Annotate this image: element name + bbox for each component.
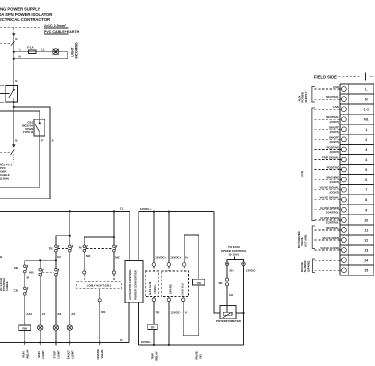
terminal 5 xyxy=(342,167,347,172)
wire: field wire 2 xyxy=(315,138,341,140)
wire: field wire 12 xyxy=(315,239,341,241)
relay coil RN xyxy=(19,325,31,331)
svg-text:N: N xyxy=(15,79,17,83)
wire: branch bus xyxy=(25,259,56,261)
svg-text:INCOMING: INCOMING xyxy=(74,42,78,59)
actuator power converter box xyxy=(125,261,143,303)
labels 12VDC+ 12VDC+ V+ xyxy=(155,256,189,260)
svg-text:12VDC-: 12VDC- xyxy=(141,340,152,344)
svg-text:M1: M1 xyxy=(101,310,105,314)
svg-text:(CONT): (CONT) xyxy=(330,140,340,144)
fuse F-1A xyxy=(28,50,36,53)
svg-text:14: 14 xyxy=(364,259,368,263)
svg-text:1: 1 xyxy=(365,128,367,132)
node: junction lamp neutral xyxy=(13,58,15,60)
wire: main live vertical xyxy=(13,36,15,86)
svg-text:2: 2 xyxy=(365,138,367,142)
wire: 12VDC+ bus xyxy=(139,211,214,213)
wire to valve connector xyxy=(83,252,85,271)
wire: 12VDC- bus xyxy=(139,344,244,346)
terminal strip table xyxy=(340,84,374,275)
wire: field wire 7 xyxy=(315,189,341,191)
bracket: house alarms rows xyxy=(313,259,316,273)
svg-text:LL: LL xyxy=(41,47,45,51)
svg-text:E: E xyxy=(52,139,54,143)
svg-text:(SPARE): (SPARE) xyxy=(306,261,310,272)
svg-text:POSITIVE: POSITIVE xyxy=(327,166,340,170)
contact SB stop button xyxy=(24,265,27,268)
wire: field wire 8 xyxy=(315,199,341,201)
wire stop lamp xyxy=(55,276,57,325)
terminal N xyxy=(342,97,347,102)
lamp fault xyxy=(67,325,72,330)
wire: tee to TB contact xyxy=(56,236,70,245)
wire: lamp return xyxy=(14,52,68,59)
wire: dash-dot into isolator xyxy=(0,85,6,87)
wire: field wire L xyxy=(315,88,341,90)
wire: CL bus xyxy=(0,211,130,260)
svg-text:V+: V+ xyxy=(185,256,189,260)
svg-text:POTENTIOMETER: POTENTIOMETER xyxy=(216,319,242,323)
svg-text:15: 15 xyxy=(364,269,368,273)
wire: field wire 15 xyxy=(315,269,341,271)
svg-text:(0-10V) SPEED: (0-10V) SPEED xyxy=(320,216,339,220)
wire: mech link dashed xyxy=(42,271,54,273)
wire xyxy=(24,295,26,325)
lamp: incoming light xyxy=(53,49,59,55)
wire: field wire 5 xyxy=(315,169,341,171)
terminal L-1 xyxy=(342,107,347,112)
svg-text:SPARE: SPARE xyxy=(169,284,173,294)
terminal 9 xyxy=(342,207,347,212)
svg-text:MC: MC xyxy=(115,256,120,260)
terminal 12VDC- xyxy=(242,262,246,266)
svg-text:CL: CL xyxy=(120,207,124,211)
terminal L xyxy=(342,87,347,92)
wire: incoming dashed feeder xyxy=(0,27,40,29)
svg-text:GAS ALM: GAS ALM xyxy=(148,281,152,295)
svg-text:8: 8 xyxy=(365,198,367,202)
svg-text:N: N xyxy=(365,98,368,102)
svg-text:P: P xyxy=(41,139,43,143)
contact CB xyxy=(24,287,27,290)
svg-text:VALVE SIGNAL: VALVE SIGNAL xyxy=(320,186,340,190)
svg-text:12VDC+: 12VDC+ xyxy=(155,256,166,260)
svg-text:FIELD SIDE: FIELD SIDE xyxy=(314,74,337,79)
rotated group labels xyxy=(297,91,310,272)
svg-text:LIGHT: LIGHT xyxy=(57,350,61,359)
svg-text:SH: SH xyxy=(229,268,233,272)
svg-text:(0-10V): (0-10V) xyxy=(229,252,239,256)
node: junction earth tee xyxy=(13,106,15,108)
svg-text:LIVE: LIVE xyxy=(333,85,339,89)
terminal 15 xyxy=(342,268,347,273)
node: junction xyxy=(69,210,71,212)
wire: M contact feed xyxy=(113,211,115,244)
svg-text:RELAY: RELAY xyxy=(26,349,30,358)
note: bottom rotated labels xyxy=(22,349,104,360)
svg-text:AO: AO xyxy=(229,293,234,297)
svg-text:POWER CONVERTER: POWER CONVERTER xyxy=(134,269,138,300)
svg-text:LIGHT: LIGHT xyxy=(41,350,45,359)
wire: dashed neutral stub xyxy=(0,151,12,153)
wire: valve drop xyxy=(99,289,101,299)
svg-text:VALVE CLOSE: VALVE CLOSE xyxy=(320,246,339,250)
svg-text:N: N xyxy=(15,37,17,41)
wire: box out to N bus xyxy=(128,302,130,343)
svg-text:RN: RN xyxy=(23,326,27,330)
svg-text:ECTRICAL CONTRACTOR: ECTRICAL CONTRACTOR xyxy=(0,17,51,22)
terminal N1 xyxy=(342,117,347,122)
bracket: C2 group rows xyxy=(312,108,315,221)
svg-text:5: 5 xyxy=(365,168,367,172)
terminal 6 xyxy=(342,177,347,182)
svg-text:12VDC+: 12VDC+ xyxy=(170,256,181,260)
svg-text:NEUTRAL: NEUTRAL xyxy=(326,115,339,119)
svg-text:A3: A3 xyxy=(57,255,61,259)
svg-text:(0-10V) SPEED: (0-10V) SPEED xyxy=(320,206,339,210)
lamp stop xyxy=(53,325,58,330)
wire xyxy=(24,331,26,343)
wire: field wire 13 xyxy=(315,249,341,251)
svg-text:12VDC-: 12VDC- xyxy=(246,268,256,272)
svg-text:LIGHT: LIGHT xyxy=(71,350,75,359)
wire: earth loop xyxy=(0,107,50,199)
wire: field wire 10 xyxy=(315,219,341,221)
svg-text:CONTROL: CONTROL xyxy=(326,221,340,225)
note: outgoing cable spec xyxy=(0,163,12,181)
wire: field wire 1 xyxy=(315,128,341,130)
svg-text:4: 4 xyxy=(365,158,367,162)
note: incoming power supply heading xyxy=(0,7,53,23)
svg-text:MACHINE: MACHINE xyxy=(326,176,339,180)
svg-text:CONTROL: CONTROL xyxy=(326,210,340,214)
svg-text:(CONT): (CONT) xyxy=(330,120,340,124)
wire: field wire 11 xyxy=(315,229,341,231)
valve note dashed box xyxy=(77,282,122,289)
wire: field wire L-1 xyxy=(315,108,341,110)
node: bus junction dots and stubs xyxy=(24,342,101,346)
wire fault lamp xyxy=(69,252,71,325)
terminal 2 xyxy=(342,137,347,142)
svg-text:A3A: A3A xyxy=(26,312,33,316)
svg-text:12VDC-: 12VDC- xyxy=(171,310,181,314)
wire: dotted continuation xyxy=(13,155,15,163)
node: junction at lamp live xyxy=(13,51,15,53)
terminal 10 xyxy=(342,218,347,223)
wire: terminal drops xyxy=(153,212,155,263)
svg-text:POSITIVE: POSITIVE xyxy=(327,145,340,149)
svg-text:ACTUATOR CONTROL: ACTUATOR CONTROL xyxy=(128,269,132,300)
terminals top row xyxy=(152,263,156,267)
note: trip relay rotated xyxy=(151,351,203,361)
svg-text:VALVE: VALVE xyxy=(100,349,104,358)
svg-text:N: N xyxy=(120,338,122,342)
wire: pot right to 12VDC- xyxy=(236,312,244,314)
svg-text:GAS VLV: GAS VLV xyxy=(181,283,185,296)
svg-text:NEUTRAL: NEUTRAL xyxy=(326,95,339,99)
wire: dashed incoming neutral xyxy=(0,42,11,44)
wire: contactor column xyxy=(69,211,71,244)
wire: mechanical link dashed xyxy=(58,248,68,250)
node: junction xyxy=(113,210,115,212)
terminal 3 xyxy=(342,147,347,152)
svg-text:A7: A7 xyxy=(42,312,46,316)
svg-text:CABLE: CABLE xyxy=(5,281,9,291)
wire: bus corner to potentiometer xyxy=(214,212,220,313)
svg-text:6: 6 xyxy=(365,178,367,182)
breaker CB1 MCB box xyxy=(34,119,45,136)
terminal 8 xyxy=(342,197,347,202)
svg-text:(CONT): (CONT) xyxy=(330,150,340,154)
svg-text:11: 11 xyxy=(364,228,368,232)
svg-text:7: 7 xyxy=(365,188,367,192)
svg-text:TYPE B: TYPE B xyxy=(23,130,33,134)
relay coil TR xyxy=(148,324,158,329)
bracket: aux power supply rows xyxy=(312,87,315,103)
wire: live below isolator xyxy=(13,86,15,90)
svg-text:ON/OFF: ON/OFF xyxy=(329,125,340,129)
terminal 4 xyxy=(342,157,347,162)
svg-text:(C2): (C2) xyxy=(300,171,304,177)
wire: mcb feed xyxy=(0,111,40,120)
svg-text:3: 3 xyxy=(365,148,367,152)
svg-text:ON/OFF: ON/OFF xyxy=(329,135,340,139)
wire: mcb load out xyxy=(0,136,40,187)
svg-text:4B: 4B xyxy=(0,255,2,259)
wire: field wire 14 xyxy=(315,259,341,261)
svg-text:13: 13 xyxy=(364,249,368,253)
gas alarm dashed box xyxy=(145,271,159,297)
node: arrow down xyxy=(12,144,15,147)
svg-text:V-: V- xyxy=(185,310,188,314)
contact M right xyxy=(113,245,116,248)
terminal 12 xyxy=(342,238,347,243)
svg-text:2x1C 2.5mm²: 2x1C 2.5mm² xyxy=(44,24,67,28)
svg-text:F-1A: F-1A xyxy=(27,45,35,49)
contact TB xyxy=(55,245,58,248)
svg-text:TRIP SIGNAL: TRIP SIGNAL xyxy=(322,156,339,160)
wire: ecm bracket xyxy=(234,257,236,260)
svg-text:12: 12 xyxy=(364,239,368,243)
svg-text:A8: A8 xyxy=(57,312,61,316)
svg-text:(CONT): (CONT) xyxy=(330,130,340,134)
svg-text:VALVE SIGNAL: VALVE SIGNAL xyxy=(320,196,340,200)
svg-text:ACT (M2): ACT (M2) xyxy=(303,235,307,247)
terminal 14 xyxy=(342,258,347,263)
wire: field wire N1 xyxy=(315,118,341,120)
svg-text:N: N xyxy=(19,55,21,59)
contact on fault column xyxy=(69,245,72,248)
svg-text:ING POWER SUPPLY: ING POWER SUPPLY xyxy=(0,7,40,12)
note: TO ECM SPEED CONTROL xyxy=(221,245,247,256)
wire: field wire 4 xyxy=(315,159,341,161)
svg-text:N1: N1 xyxy=(364,118,369,122)
wire: SH drop xyxy=(226,266,228,278)
svg-text:10: 10 xyxy=(364,218,368,222)
svg-text:VALVE OPEN: VALVE OPEN xyxy=(322,236,339,240)
svg-text:NEUTRAL: NEUTRAL xyxy=(326,226,339,230)
svg-text:9: 9 xyxy=(365,208,367,212)
wire: box out to 12vdc- xyxy=(138,302,140,345)
wire: V- loop xyxy=(183,285,199,336)
note: left cable spec rotated xyxy=(0,277,9,291)
svg-text:(LS0H): (LS0H) xyxy=(0,177,9,181)
terminal 11 xyxy=(342,228,347,233)
potentiometer box xyxy=(220,306,236,319)
terminal 1 xyxy=(342,127,347,132)
svg-text:SUPPLY: SUPPLY xyxy=(304,91,308,102)
wire: drop from feeder xyxy=(13,28,15,34)
wire: field wire 6 xyxy=(315,179,341,181)
spare/valve dashed box xyxy=(161,271,188,297)
wire: VR loop top xyxy=(184,235,199,279)
svg-text:RELAY: RELAY xyxy=(155,351,159,360)
svg-text:LIVE: LIVE xyxy=(333,105,339,109)
terminals bottom row xyxy=(153,297,155,299)
wire: N bus xyxy=(0,342,129,344)
wire: 12vdc+ feed into box xyxy=(138,212,140,261)
resistor VR xyxy=(193,279,205,285)
svg-text:(CONT): (CONT) xyxy=(330,190,340,194)
svg-text:PVC CABLE+EARTH: PVC CABLE+EARTH xyxy=(44,30,80,34)
wire: lamp live xyxy=(14,51,68,53)
svg-text:<STD>: <STD> xyxy=(153,285,157,294)
wire: TR coil column xyxy=(153,302,155,325)
wire xyxy=(39,276,41,325)
note: incoming light rotated label xyxy=(71,42,79,59)
contact row2 on stop column xyxy=(55,269,58,272)
svg-text:SIG: SIG xyxy=(199,354,203,359)
svg-text:L: L xyxy=(20,47,22,51)
terminal 7 xyxy=(342,187,347,192)
wire: field wire 3 xyxy=(315,148,341,150)
connector SR xyxy=(225,278,228,281)
wire: 12VDC- column xyxy=(168,302,170,345)
contact run column xyxy=(39,260,41,268)
wire: field wire 9 xyxy=(315,209,341,211)
terminal SH xyxy=(225,262,229,266)
terminal 13 xyxy=(342,248,347,253)
wire: mech link dashed xyxy=(86,248,112,250)
lamp run xyxy=(38,325,43,330)
wire dashed stubs xyxy=(83,274,85,282)
svg-text:A9: A9 xyxy=(71,312,75,316)
svg-text:M3: M3 xyxy=(86,254,90,258)
isolator switch box xyxy=(6,86,18,103)
svg-text:12VDC+: 12VDC+ xyxy=(140,207,152,211)
wire dashed stubs to gas alarm xyxy=(153,266,155,271)
svg-text:L-1: L-1 xyxy=(364,108,369,112)
svg-text:N: N xyxy=(15,139,17,143)
svg-text:(CONT): (CONT) xyxy=(330,180,340,184)
svg-text:( ONLY W M T.G/B ): ( ONLY W M T.G/B ) xyxy=(87,284,111,288)
bracket: motorized valve rows xyxy=(312,226,315,249)
wire: stop button column xyxy=(24,260,26,264)
contact M left xyxy=(83,245,86,248)
wire xyxy=(24,273,26,287)
wire xyxy=(226,286,228,306)
wire: field wire N xyxy=(315,98,341,100)
wire: down from TB xyxy=(55,252,57,268)
note: mcb rating text xyxy=(22,120,34,134)
node: arrow xyxy=(12,33,15,36)
